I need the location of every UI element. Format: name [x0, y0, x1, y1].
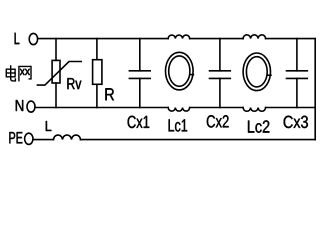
char 网: [19, 66, 31, 80]
label Rv (varistor): [67, 78, 81, 89]
wire L line segment 3: [266, 38, 316, 40]
wire PE lead to inductor L: [33, 139, 54, 141]
wire PE line to right: [81, 139, 316, 141]
wire Cx3 top lead: [296, 39, 298, 71]
label 电网 (power grid), drawn as strokes: [6, 66, 31, 81]
capacitor Cx3 plates: [287, 71, 308, 79]
wire N line segment 2: [190, 107, 243, 109]
inductor Lc2 top winding: [243, 35, 266, 39]
wire resistor bottom lead: [96, 84, 98, 107]
inductor Lc1 core rings: [166, 52, 194, 90]
wire varistor top lead: [55, 39, 57, 61]
wire L line segment 1: [38, 38, 169, 40]
label PE (earth terminal): [9, 132, 22, 143]
label R (resistor): [105, 88, 114, 100]
label Cx3: [284, 116, 308, 128]
char 电: [11, 66, 16, 81]
wire Cx2 top lead: [219, 39, 221, 71]
inductor Lc2 bottom winding: [243, 108, 266, 112]
label Lc1: [169, 119, 188, 131]
terminal N: [27, 101, 35, 112]
wire N line segment 3: [266, 107, 316, 109]
label Lc2: [248, 120, 269, 132]
label Cx2: [207, 115, 229, 127]
wire Cx1 top lead: [139, 39, 141, 71]
wire varistor bottom lead: [55, 83, 57, 108]
wire L line segment 2: [190, 38, 243, 40]
capacitor Cx1 plates: [129, 71, 150, 79]
varistor Rv arrow stroke: [37, 62, 81, 86]
terminal L: [29, 33, 37, 44]
inductor L on PE line: [54, 135, 81, 140]
inductor Lc2 core tick: [268, 74, 271, 76]
label Cx1: [128, 116, 150, 128]
resistor R body: [93, 60, 102, 85]
label L (line terminal): [15, 33, 20, 44]
inductor Lc1 bottom winding: [168, 108, 189, 112]
wire Cx1 bottom lead: [139, 78, 141, 107]
wire Cx3 bottom lead: [296, 78, 298, 107]
wire right edge vertical: [314, 39, 316, 140]
inductor Lc1 core tick: [190, 74, 193, 76]
capacitor Cx2 plates: [210, 71, 231, 79]
inductor Lc1 top winding: [168, 35, 189, 39]
terminal PE: [25, 133, 33, 144]
wire Cx2 bottom lead: [219, 78, 221, 107]
label L (PE choke): [46, 121, 52, 131]
label N (neutral terminal): [16, 100, 23, 111]
wire resistor top lead: [96, 39, 98, 60]
wire N line segment 1: [35, 107, 168, 109]
inductor Lc2 core rings: [243, 53, 270, 91]
varistor Rv body: [52, 60, 60, 83]
